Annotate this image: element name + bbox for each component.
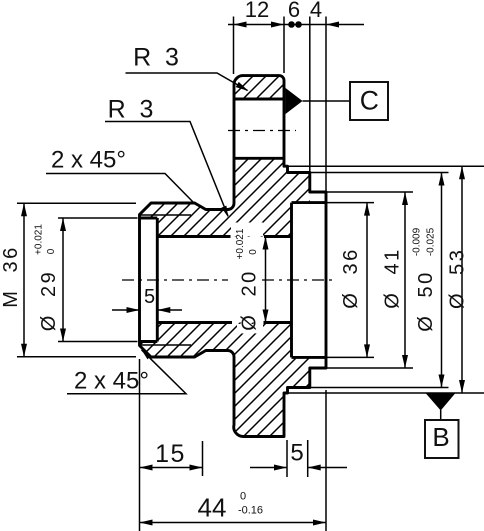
svg-text:-0.025: -0.025 [426, 227, 437, 256]
svg-text:Ø 41: Ø 41 [381, 247, 403, 308]
svg-text:Ø 53: Ø 53 [446, 248, 468, 309]
svg-text:0: 0 [46, 248, 57, 254]
svg-text:44: 44 [198, 493, 227, 523]
svg-text:2 x 45°: 2 x 45° [51, 147, 126, 174]
svg-text:Ø 36: Ø 36 [340, 247, 362, 308]
svg-text:5: 5 [144, 286, 155, 308]
svg-text:12: 12 [245, 0, 269, 22]
svg-text:0: 0 [240, 491, 246, 503]
svg-text:+0.021: +0.021 [34, 224, 45, 255]
svg-text:4: 4 [310, 0, 322, 22]
svg-text:5: 5 [290, 440, 303, 467]
svg-text:C: C [360, 86, 379, 116]
svg-text:6: 6 [288, 0, 300, 22]
svg-text:15: 15 [155, 440, 186, 468]
svg-text:Ø 50: Ø 50 [415, 270, 437, 331]
svg-text:M 36: M 36 [0, 245, 22, 308]
svg-text:R 3: R 3 [133, 44, 179, 72]
svg-text:-0.16: -0.16 [238, 505, 263, 517]
svg-text:0: 0 [248, 249, 259, 255]
svg-text:B: B [432, 422, 449, 452]
svg-text:R 3: R 3 [108, 96, 154, 124]
svg-text:Ø 20: Ø 20 [238, 269, 260, 330]
svg-text:Ø 29: Ø 29 [38, 270, 60, 331]
svg-text:+0.021: +0.021 [235, 228, 246, 259]
svg-text:2 x 45°: 2 x 45° [74, 368, 149, 395]
svg-text:-0.009: -0.009 [412, 227, 423, 256]
